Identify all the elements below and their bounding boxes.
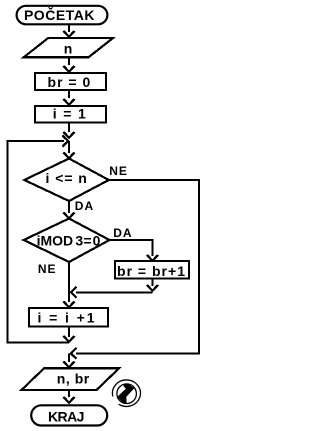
svg-text:iMOD3=0: iMOD3=0 <box>37 233 101 249</box>
arrowhead into input n <box>64 31 75 37</box>
svg-text:DA: DA <box>113 226 132 240</box>
svg-text:KRAJ: KRAJ <box>48 408 85 424</box>
wire i=i+1 down to loopback corner <box>68 327 70 338</box>
arrowhead left into merge point <box>71 348 77 359</box>
wire input to br=0 <box>68 57 70 65</box>
process box br = br+1 <box>115 261 189 279</box>
arrowhead into decision 1 <box>64 153 75 159</box>
arrowhead down at loopback corner <box>64 336 75 342</box>
svg-text:i = i +1: i = i +1 <box>38 310 95 326</box>
wire junction line to spine <box>76 291 153 293</box>
loopback wire left and up to junction <box>8 141 69 343</box>
terminator POČETAK <box>17 6 108 25</box>
NE exit wire right, down and left to merge <box>76 180 199 353</box>
arrowhead into br=0 <box>64 66 75 72</box>
output parallelogram n, br <box>22 368 120 390</box>
arrowhead into i=i+1 <box>64 302 75 308</box>
svg-text:NE: NE <box>109 164 128 178</box>
arrowhead into br=br+1 <box>147 255 158 261</box>
terminator KRAJ <box>31 405 107 425</box>
wire br=0 to i=1 <box>68 91 70 98</box>
wire decision2 DA to br=br+1 <box>110 240 153 256</box>
svg-text:n, br: n, br <box>57 371 90 387</box>
svg-text:br = br+1: br = br+1 <box>117 263 185 279</box>
watermark icon inner circle <box>117 384 136 404</box>
process box i = i + 1 <box>29 308 108 327</box>
arrowhead into decision 2 <box>64 213 75 219</box>
svg-text:NE: NE <box>38 262 57 276</box>
decision diamond i <= n <box>24 159 109 202</box>
svg-text:POČETAK: POČETAK <box>24 6 94 23</box>
svg-text:n: n <box>64 41 73 57</box>
wire junction to decision 1 <box>68 141 70 153</box>
arrowhead down onto junction line <box>147 285 158 291</box>
arrowhead left into spine <box>71 287 77 298</box>
svg-text:br = 0: br = 0 <box>48 74 91 90</box>
wire merge down to output <box>68 353 70 362</box>
arrowhead at loop junction <box>64 132 75 138</box>
wire start to input <box>68 25 70 32</box>
wire i=1 down to loop junction <box>68 123 70 133</box>
process box br = 0 <box>35 73 106 90</box>
wire br=br+1 down to junction line <box>152 279 154 287</box>
arrowhead into i=1 <box>64 99 75 105</box>
decision diamond iMOD3=0 <box>24 219 110 263</box>
wire decision1 DA to decision 2 <box>68 201 70 213</box>
svg-text:DA: DA <box>75 199 94 213</box>
arrowhead right into loop junction <box>63 136 69 147</box>
arrowhead into output n, br <box>64 362 75 368</box>
svg-text:i = 1: i = 1 <box>53 105 86 121</box>
wire output to KRAJ <box>68 390 70 397</box>
process box i = 1 <box>35 105 106 122</box>
watermark icon outer circle <box>112 380 140 406</box>
arrowhead into KRAJ <box>64 397 75 403</box>
input parallelogram n <box>24 38 113 57</box>
svg-text:i <= n: i <= n <box>46 170 87 186</box>
wire decision2 NE down to i=i+1 <box>68 262 70 302</box>
watermark icon glyph <box>118 384 134 404</box>
